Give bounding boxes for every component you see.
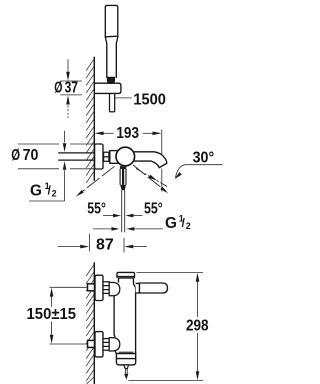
upper union nut <box>103 282 109 294</box>
mixer escutcheon (plan) <box>95 144 103 169</box>
lower union cone <box>109 338 120 351</box>
diverter drum <box>116 352 135 365</box>
svg-text:55°: 55° <box>144 201 163 218</box>
label G 1/2 (right) <box>165 214 191 233</box>
dim 150±15 extension lines <box>50 287 88 344</box>
shower hose <box>110 94 115 112</box>
svg-text:298: 298 <box>186 318 209 335</box>
lever bar (plan, foreshortened) <box>120 169 126 185</box>
lever needle lines <box>122 190 125 232</box>
svg-text:30°: 30° <box>193 149 215 166</box>
G 1/2 pointer row (hose outlet) <box>93 227 163 231</box>
dim 150±15 line with arrows <box>50 288 54 344</box>
dim 298 extension lines <box>129 272 204 380</box>
spout (plan) <box>131 152 167 168</box>
lever taper (dark) <box>120 185 126 190</box>
svg-text:193: 193 <box>116 125 139 142</box>
wall hatching (upper) <box>86 59 94 183</box>
flow arrow on stream line <box>149 175 157 181</box>
mixer union nut (plan) <box>104 152 109 161</box>
lower supply stub in wall <box>88 340 95 347</box>
label G 1/2 (left) with shelf <box>29 200 65 202</box>
hose outlet nipple <box>124 365 129 369</box>
svg-text:2: 2 <box>52 189 57 199</box>
mixer body (plan) <box>110 151 121 164</box>
hand shower handle end cap <box>107 77 114 83</box>
svg-text:G: G <box>30 183 42 200</box>
lower union nut <box>103 339 109 351</box>
55-deg swing line (right, dashed with arrow) <box>133 165 168 193</box>
shower bracket <box>94 83 121 93</box>
svg-text:37: 37 <box>65 80 78 97</box>
svg-text:70: 70 <box>23 147 39 164</box>
dim 87 extension lines <box>90 234 125 253</box>
30-deg reference vertical (below spout) <box>161 169 163 192</box>
hand shower handle <box>107 44 117 79</box>
svg-text:1500: 1500 <box>133 91 166 108</box>
dim Ø37 arrows <box>66 59 70 118</box>
upper union cone <box>109 282 120 295</box>
svg-text:55°: 55° <box>87 201 106 218</box>
outlet stub with down arrow <box>124 369 128 380</box>
dim 298 line with arrows <box>196 273 200 381</box>
svg-text:Ø: Ø <box>54 80 62 97</box>
dim Ø70 arrows and line <box>63 131 67 201</box>
lever dome (plan) <box>116 147 135 166</box>
upper supply stub in wall <box>88 284 95 291</box>
dim 193 right extension line <box>161 130 163 158</box>
top cap <box>117 272 135 278</box>
dim 87 arrows <box>58 245 147 249</box>
lever root block <box>120 166 126 169</box>
svg-text:87: 87 <box>96 236 114 253</box>
leader 1500 <box>115 97 132 99</box>
label 30 deg with leader <box>176 165 223 178</box>
supply pipe (plan view, in wall) <box>58 153 94 160</box>
mixer body (elevation) <box>114 272 136 353</box>
30-deg stream dash-dot line <box>136 169 168 187</box>
wall (upper, shared by shower holder and mixer plan view) <box>93 57 95 181</box>
lever (elevation) <box>136 283 168 293</box>
55-deg swing line (left, dashed with arrow) <box>76 166 115 196</box>
svg-text:G: G <box>165 215 177 232</box>
svg-text:150±15: 150±15 <box>27 306 77 323</box>
upper escutcheon (edge view) <box>95 275 103 300</box>
wall hatching (lower) <box>86 265 94 384</box>
dim Ø70 extension lines <box>18 144 94 169</box>
wall (lower, side elevation) <box>93 262 95 384</box>
dim 193 line with arrows <box>95 132 162 136</box>
svg-text:Ø: Ø <box>11 147 20 164</box>
svg-text:2: 2 <box>186 221 191 231</box>
hand shower head <box>105 5 118 43</box>
55-deg pointer row (to lever axis) <box>103 214 142 218</box>
lower escutcheon (edge view) <box>95 332 103 357</box>
neck and flared body <box>119 277 134 279</box>
dim Ø37 extension lines <box>60 81 82 95</box>
